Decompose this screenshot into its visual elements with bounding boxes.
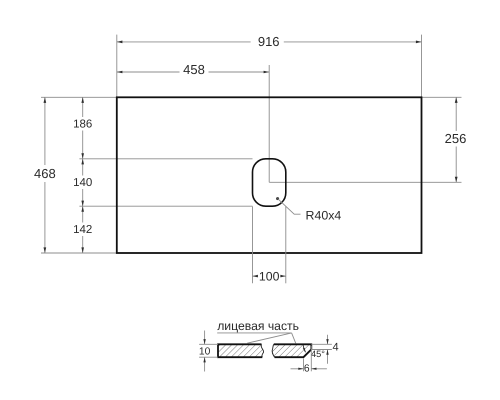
svg-text:916: 916	[258, 34, 280, 49]
svg-text:142: 142	[73, 224, 92, 236]
wire: hole right extension down to 100 dim	[285, 207, 287, 284]
svg-text:186: 186	[73, 119, 92, 131]
svg-text:458: 458	[183, 62, 205, 77]
dimension 6 chamfer run	[291, 346, 327, 375]
dimension 4 chamfer face height	[311, 335, 338, 364]
wire: extension at hole top to chain dim	[79, 158, 252, 160]
svg-text:лицевая часть: лицевая часть	[217, 319, 299, 333]
dimension 186 top edge to hole top	[73, 97, 92, 159]
wire: top extension line above right corner	[421, 35, 423, 98]
leader to left piece face	[247, 333, 291, 343]
dimension 100 hole width	[253, 269, 286, 283]
svg-text:468: 468	[34, 166, 56, 181]
countertop outline (top view)	[117, 97, 422, 253]
svg-text:100: 100	[259, 269, 280, 283]
svg-text:140: 140	[73, 177, 92, 189]
section left piece with hatching	[218, 344, 264, 357]
dimension 256 top edge to hole center	[445, 97, 467, 182]
svg-text:R40x4: R40x4	[306, 209, 342, 223]
leader R40x4 with dot on hole corner	[276, 197, 341, 223]
dimension 10 section thickness	[199, 331, 218, 372]
leader to right piece face	[292, 333, 296, 344]
node: hole vertical centerline	[268, 65, 270, 182]
wire: extension at hole bottom to chain dim	[79, 205, 252, 207]
svg-text:6: 6	[304, 363, 310, 374]
svg-text:4: 4	[332, 341, 338, 353]
svg-text:45°: 45°	[311, 349, 325, 359]
svg-text:10: 10	[199, 346, 211, 357]
dimension 916 top overall width	[117, 34, 422, 49]
wire: right extension at top edge	[422, 96, 462, 98]
wire: hole left extension down to 100 dim	[252, 207, 254, 284]
wire: left extension at top edge	[41, 96, 117, 98]
dimension 140 hole height	[73, 159, 92, 206]
angle 45deg arc with arrowhead	[303, 345, 325, 359]
label: лицевая часть with underline	[217, 319, 299, 333]
dimension 458 to hole centerline	[117, 62, 269, 77]
node: hole horizontal centerline to 256 dim	[269, 181, 461, 183]
svg-text:256: 256	[445, 131, 467, 146]
section right piece with hatching and 45deg chamfer	[272, 344, 311, 357]
wire: left extension at bottom edge	[41, 252, 117, 254]
sink hole R40x4 rounded rectangle	[253, 159, 286, 206]
dimension 468 overall height	[34, 97, 56, 253]
dimension 142 hole bottom to bottom edge	[73, 206, 92, 253]
wire: top extension line above left corner	[116, 35, 118, 98]
